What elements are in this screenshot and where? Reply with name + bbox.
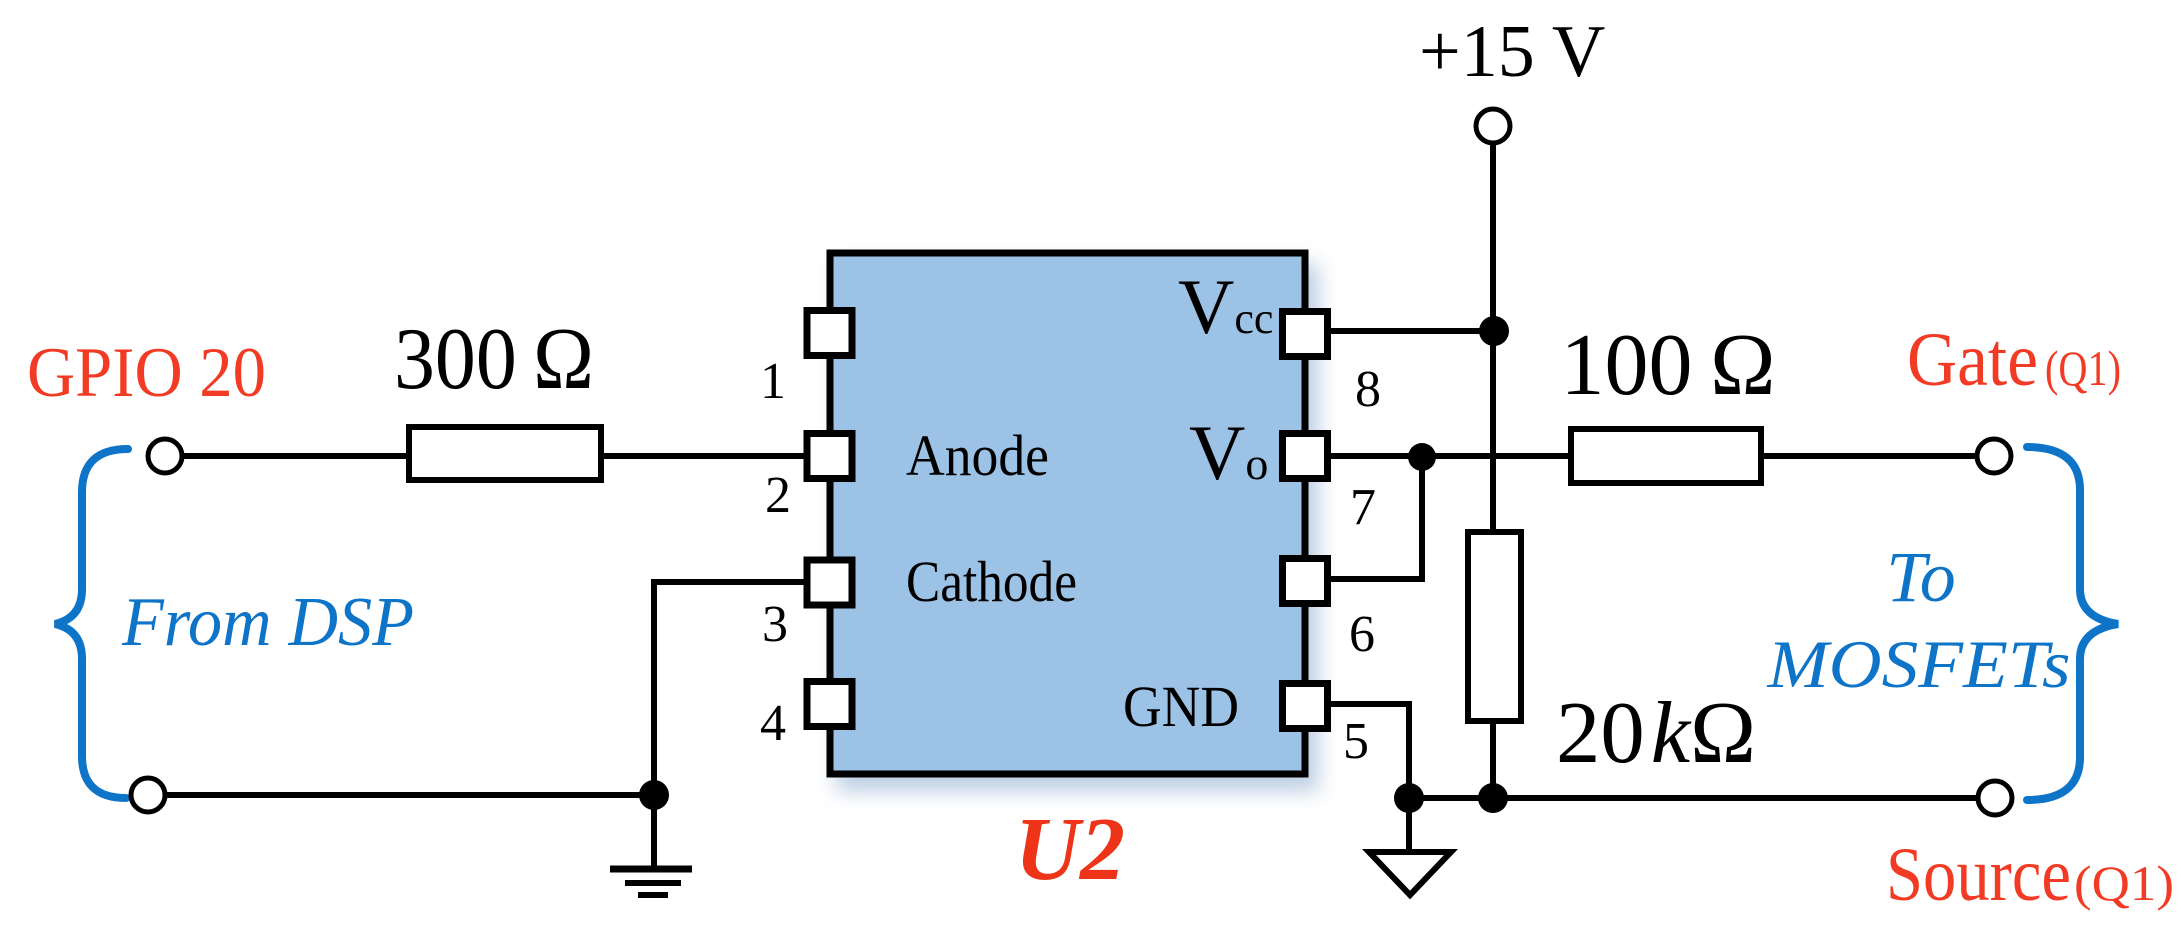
- junction Vcc node: [1479, 316, 1509, 346]
- pin 5 number: [1343, 713, 1369, 770]
- resistor 20 kohm body: [1468, 532, 1521, 721]
- ground (signal ground, 3-bar): [610, 869, 692, 895]
- node Gate(Q1) label: [1907, 318, 2121, 402]
- pin 8 pad: [1283, 312, 1328, 357]
- terminal DSP return (open circle): [131, 778, 165, 812]
- svg-text:4: 4: [760, 695, 786, 752]
- pin 6 pad: [1283, 559, 1328, 604]
- op-amp U2 (optocoupler IC body): [830, 253, 1305, 774]
- pin 4 pad: [807, 682, 852, 727]
- wire DSP bottom terminal to cathode ground junction: [166, 792, 654, 798]
- svg-text:Source: Source: [1886, 833, 2071, 917]
- pin label GND: [1123, 674, 1239, 739]
- wire junction to ground symbol: [651, 795, 657, 866]
- svg-text:(Q1): (Q1): [2074, 855, 2174, 911]
- svg-text:5: 5: [1343, 713, 1369, 770]
- resistor 100 ohm body: [1571, 429, 1761, 483]
- wire pin 7 output to R100: [1326, 453, 1571, 459]
- resistor 300 ohm body: [409, 427, 601, 480]
- junction pin5-ground node: [1394, 783, 1424, 813]
- terminal +15V (open circle): [1476, 109, 1510, 143]
- ground (open triangle): [1369, 852, 1451, 895]
- wire R100 to Gate terminal: [1761, 453, 1978, 459]
- terminal GPIO20 (open circle): [148, 439, 182, 473]
- pin label Vcc: [1178, 263, 1273, 350]
- svg-text:Anode: Anode: [906, 423, 1049, 488]
- junction 20k-ground node: [1478, 783, 1508, 813]
- svg-text:MOSFETs: MOSFETs: [1766, 626, 2070, 702]
- terminal Source (open circle): [1978, 781, 2012, 815]
- pin 6 number: [1349, 606, 1375, 663]
- svg-text:3: 3: [762, 596, 788, 653]
- node From DSP label: [121, 584, 414, 661]
- svg-text:8: 8: [1355, 361, 1381, 418]
- pin 8 number: [1355, 361, 1381, 418]
- wire junction to chassis ground symbol: [1406, 798, 1412, 850]
- svg-text:To: To: [1886, 537, 1955, 617]
- pin 1 pad: [807, 311, 852, 356]
- wire GPIO20 terminal to R 300: [183, 453, 412, 459]
- pin 3 number: [762, 596, 788, 653]
- junction Vo node: [1408, 443, 1436, 471]
- brace To-MOSFETs (right curly brace): [2027, 447, 2118, 800]
- resistor 300 ohm value label: [394, 311, 594, 408]
- pin 2 number: [765, 467, 791, 524]
- node GPIO 20 label: [27, 334, 266, 412]
- reference designator U2: [1015, 800, 1125, 899]
- svg-text:6: 6: [1349, 606, 1375, 663]
- pin label Vo: [1189, 409, 1268, 496]
- wire pin 8 to +15V rail: [1326, 328, 1493, 334]
- wire pin 6 tie to Vo: [1326, 457, 1422, 579]
- svg-text:U2: U2: [1015, 800, 1125, 899]
- pin 7 number: [1350, 479, 1376, 536]
- svg-text:300 Ω: 300 Ω: [394, 311, 594, 408]
- svg-text:(Q1): (Q1): [2045, 340, 2121, 396]
- pin 1 number: [760, 353, 786, 410]
- svg-text:GPIO 20: GPIO 20: [27, 334, 266, 412]
- wire pin 5 GND down to ground rail: [1326, 704, 1409, 798]
- svg-text:2: 2: [765, 467, 791, 524]
- svg-text:1: 1: [760, 353, 786, 410]
- brace From-DSP (left curly brace): [55, 449, 128, 798]
- pin 4 number: [760, 695, 786, 752]
- svg-text:20kΩ: 20kΩ: [1556, 685, 1756, 782]
- wire R20k bottom to ground rail: [1490, 721, 1496, 798]
- svg-text:7: 7: [1350, 479, 1376, 536]
- pin label Cathode: [906, 549, 1077, 614]
- svg-text:100 Ω: 100 Ω: [1560, 317, 1775, 414]
- svg-text:From DSP: From DSP: [121, 584, 414, 661]
- pin 7 pad: [1283, 434, 1328, 479]
- svg-text:Gate: Gate: [1907, 318, 2038, 402]
- wire +15V rail vertical: [1490, 142, 1496, 532]
- junction cathode-ground node: [639, 780, 669, 810]
- node Source(Q1) label: [1886, 833, 2174, 917]
- resistor 100 ohm value label: [1560, 317, 1775, 414]
- pin 3 pad: [807, 560, 852, 605]
- wire ground rail to Source terminal: [1409, 795, 1979, 801]
- node To MOSFETs label: [1766, 537, 2070, 702]
- svg-text:GND: GND: [1123, 674, 1239, 739]
- svg-text:Cathode: Cathode: [906, 549, 1077, 614]
- pin 2 pad: [807, 434, 852, 479]
- power +15 V label: [1419, 11, 1605, 93]
- pin label Anode: [906, 423, 1049, 488]
- terminal Gate (open circle): [1977, 439, 2011, 473]
- pin 5 pad: [1283, 684, 1328, 729]
- wire cathode pin 3 down to ground: [654, 582, 806, 795]
- wire R300 to pin 2: [601, 453, 806, 459]
- svg-text:+15 V: +15 V: [1419, 11, 1605, 93]
- resistor 20 kohm value label: [1556, 685, 1756, 782]
